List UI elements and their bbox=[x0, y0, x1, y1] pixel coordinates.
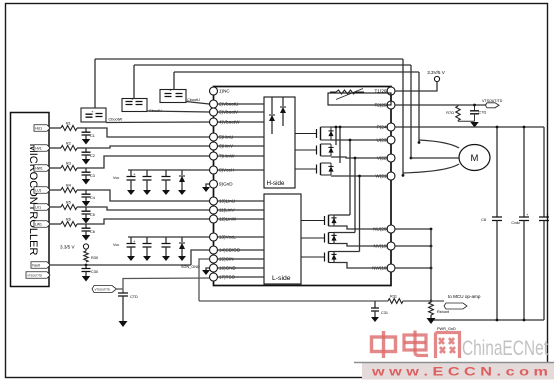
wire pin stub to H-side bbox=[218, 121, 264, 123]
ground SGN_GND bbox=[181, 265, 210, 275]
wire pin stub to L-side bbox=[218, 236, 264, 238]
capacitor C3 bbox=[82, 168, 95, 179]
wire R4 to junction bbox=[77, 190, 209, 201]
wire pin stub to H-side bbox=[218, 155, 264, 157]
wire Q5 source to NV bbox=[334, 244, 387, 247]
MCU pin flag HV1 bbox=[34, 145, 50, 152]
resistor R6 bbox=[61, 218, 77, 227]
wire Q6 source to NW bbox=[334, 263, 387, 269]
ground C8+ bbox=[127, 190, 135, 195]
wire P feed to Q2 drain bbox=[335, 126, 338, 145]
svg-text:H-side: H-side bbox=[267, 180, 285, 187]
pin U(23) bbox=[377, 136, 396, 144]
thermistor RT1 bbox=[328, 89, 391, 106]
pin 15 15)CIN bbox=[210, 255, 234, 263]
svg-text:C6: C6 bbox=[90, 230, 95, 234]
svg-text:SGN_GND: SGN_GND bbox=[181, 265, 200, 269]
MCU pin flag HW1 bbox=[34, 165, 50, 172]
resistor Rshunt bbox=[429, 300, 450, 318]
capacitor CTD bbox=[118, 293, 138, 321]
resistor R4 bbox=[61, 184, 77, 193]
wire pin stub to L-side bbox=[218, 276, 264, 278]
pin 2 2)VbootU bbox=[210, 100, 239, 108]
zener D13 (VccL) bbox=[179, 237, 185, 256]
svg-text:MICROCONTROLLER: MICROCONTROLLER bbox=[27, 144, 39, 256]
svg-text:VTSOUT/TD: VTSOUT/TD bbox=[95, 287, 110, 291]
wire CbootW top feed bbox=[94, 59, 96, 108]
wire boot W top rail bbox=[95, 58, 403, 60]
resistor R31 sense bbox=[388, 295, 403, 304]
ground D13 bbox=[178, 256, 186, 261]
wire N bus vertical bbox=[430, 229, 432, 302]
microcontroller U2 bbox=[11, 113, 50, 287]
svg-text:R30: R30 bbox=[91, 256, 98, 260]
H-side block bbox=[264, 97, 295, 188]
wire VccL rail bbox=[113, 237, 209, 247]
wire U return vertical bbox=[418, 72, 421, 144]
resistor R30 bbox=[84, 249, 98, 262]
wire pin stub to L-side bbox=[218, 258, 264, 260]
resistor R7 (T2 filter) bbox=[446, 105, 460, 121]
net flag VTSOUT/TD bottom bbox=[92, 286, 123, 293]
pin 10 10)LinU bbox=[210, 197, 236, 205]
ground C30 bbox=[82, 276, 91, 282]
wire pin stub to L-side bbox=[218, 200, 264, 202]
MCU pin flag HU1 bbox=[34, 125, 50, 132]
capacitor C9 (VccH) bbox=[162, 170, 171, 190]
L-side block bbox=[264, 194, 301, 284]
pin P(24) bbox=[377, 123, 395, 131]
wire R2 to junction bbox=[77, 146, 209, 148]
svg-text:to MCU op-amp: to MCU op-amp bbox=[448, 294, 481, 299]
transistor Q1 U high bbox=[295, 127, 334, 140]
svg-text:LU1: LU1 bbox=[35, 188, 41, 192]
capacitor C6 bbox=[82, 224, 95, 235]
wire R3 to junction bbox=[77, 156, 209, 168]
svg-text:R2: R2 bbox=[66, 142, 71, 146]
capacitor C8+ (VccH) bbox=[127, 170, 137, 190]
wire T2 filter common bbox=[458, 120, 475, 122]
pin NW(18) bbox=[372, 264, 395, 272]
svg-text:9)GnD: 9)GnD bbox=[219, 182, 233, 187]
svg-text:3.3/5 V: 3.3/5 V bbox=[60, 245, 75, 250]
pin 5 5)HinU bbox=[210, 133, 234, 141]
ground CTD bbox=[119, 321, 128, 327]
capacitor C30 bbox=[82, 265, 98, 276]
wire CbootU top feed bbox=[173, 72, 175, 90]
net flag to MCU op-amp bbox=[444, 294, 481, 309]
pin 12 12)LinW bbox=[210, 215, 237, 223]
wire NV(19) bbox=[395, 245, 432, 248]
capacitor CbootV group bbox=[122, 97, 162, 113]
svg-text:CbootW: CbootW bbox=[109, 118, 123, 122]
net flag VTSOUT/TD right bbox=[482, 99, 503, 108]
ground C6 bbox=[82, 235, 91, 241]
svg-text:C8: C8 bbox=[481, 218, 486, 222]
svg-text:1)NC: 1)NC bbox=[219, 89, 230, 94]
wire T2 sense line bbox=[395, 104, 487, 106]
wire NW(18) bbox=[395, 267, 432, 270]
svg-text:L-side: L-side bbox=[272, 275, 291, 282]
watermark logo char wang bbox=[436, 333, 460, 359]
transistor Q6 W low bbox=[301, 252, 337, 263]
svg-text:ChinaECNet: ChinaECNet bbox=[462, 337, 548, 360]
svg-text:HU1: HU1 bbox=[35, 126, 42, 130]
capacitor Cdc right branch bbox=[539, 127, 549, 320]
pin 16 16)GND bbox=[210, 264, 237, 272]
ground CvccH bbox=[143, 190, 151, 195]
transistor Q2 V high bbox=[295, 144, 334, 156]
wire W to Q6 drain bbox=[334, 175, 361, 252]
wire MCU R5 net bbox=[49, 206, 61, 208]
svg-text:R7Ω: R7Ω bbox=[446, 111, 454, 115]
wire P(24) DC+ rail bbox=[395, 126, 544, 128]
capacitor CbootU group bbox=[160, 88, 200, 102]
transistor Q3 W high bbox=[295, 163, 334, 175]
node 3.3/5V supply (T1) bbox=[427, 70, 446, 82]
wire CIN sense line bbox=[199, 300, 388, 302]
wire pin stub to H-side bbox=[218, 169, 264, 171]
wire W line Q3 source to pin W bbox=[331, 175, 387, 177]
wire 3.3/5V to T1 bbox=[395, 82, 437, 91]
wire DC bus bottom rail bbox=[431, 319, 544, 321]
pin 3 3)VbootV bbox=[210, 108, 240, 116]
ground C14 bbox=[162, 256, 170, 261]
svg-text:R6: R6 bbox=[66, 218, 71, 222]
MCU pin flag LU1 bbox=[34, 187, 50, 194]
svg-text:Vcc: Vcc bbox=[113, 243, 119, 247]
wire V return vertical bbox=[410, 65, 413, 159]
pin NV(19) bbox=[373, 242, 395, 250]
MCU pin flag VTSOUT/TD bbox=[26, 272, 50, 279]
wire pin stub to L-side bbox=[218, 209, 264, 211]
wire pin stub to H-side bbox=[218, 136, 264, 138]
pin 8 8)VccH bbox=[210, 166, 235, 174]
wire R6 to junction bbox=[77, 219, 209, 224]
wire U to Q4 drain bbox=[334, 139, 351, 215]
wire V line Q2 source to pin V bbox=[331, 157, 387, 158]
wire motor phase W bbox=[403, 164, 459, 173]
svg-text:VTSOUT/TD: VTSOUT/TD bbox=[27, 273, 42, 277]
MCU pin flag LV1 bbox=[34, 204, 50, 211]
capacitor C13+ (VccL) bbox=[127, 237, 137, 256]
resistor R3 bbox=[61, 162, 77, 171]
svg-text:C5: C5 bbox=[90, 213, 95, 217]
wire MCU R4 net bbox=[49, 189, 61, 191]
svg-text:R5: R5 bbox=[66, 201, 71, 205]
pin 13 13)VccL bbox=[210, 233, 237, 241]
wire pin stub to H-side bbox=[218, 111, 264, 113]
capacitor C2 bbox=[82, 148, 95, 159]
capacitor C7 (T2 filter) bbox=[470, 104, 486, 122]
resistor R2 bbox=[61, 142, 77, 151]
capacitor C8dc branch bbox=[481, 126, 502, 322]
pin 17 17)TSO bbox=[210, 273, 236, 281]
wire R5 to junction bbox=[77, 207, 209, 210]
svg-text:HW1: HW1 bbox=[35, 166, 43, 170]
node 3.3/5V pullup bbox=[60, 244, 89, 250]
svg-text:Rshunt: Rshunt bbox=[437, 310, 450, 314]
svg-text:3.3V/5 V: 3.3V/5 V bbox=[427, 70, 446, 75]
wire Q4 source to NU bbox=[334, 226, 387, 229]
capacitor C14 (VccL) bbox=[162, 237, 171, 256]
resistor R5 bbox=[61, 201, 77, 210]
svg-text:M: M bbox=[471, 153, 479, 164]
wire MCU R2 net bbox=[49, 147, 61, 149]
svg-text:LW1: LW1 bbox=[35, 222, 42, 226]
svg-text:R3: R3 bbox=[66, 162, 71, 166]
ground CvccL bbox=[143, 256, 151, 261]
wire pin stub to H-side bbox=[218, 145, 264, 147]
pin 14 14)SD/OD bbox=[210, 246, 241, 254]
watermark logo char zhong bbox=[372, 331, 396, 358]
MCU pin flag Fault bbox=[31, 262, 50, 269]
pin NU(20) bbox=[373, 225, 395, 233]
MCU pin flag LW1 bbox=[34, 221, 50, 228]
pin V(22) bbox=[377, 154, 395, 162]
wire pin stub to L-side bbox=[218, 218, 264, 220]
wire R1 to junction bbox=[77, 128, 209, 137]
diode D2 bootstrap (H-side) bbox=[280, 97, 286, 126]
svg-text:HV1: HV1 bbox=[35, 146, 42, 150]
zener D8 (VccH) bbox=[179, 170, 185, 190]
ground C13+ bbox=[127, 256, 135, 261]
pin 1 1)NC bbox=[210, 87, 231, 95]
capacitor CvccH (VccH) bbox=[143, 170, 152, 190]
wire MCU R6 net bbox=[49, 223, 61, 225]
transistor Q5 V low bbox=[301, 233, 337, 244]
pin T1(26) bbox=[374, 87, 395, 95]
wire pin9 GnD stub bbox=[206, 184, 209, 187]
ground C5 bbox=[82, 218, 91, 224]
wire P feed to Q3 drain bbox=[339, 126, 342, 163]
wire CbootV to VbootV pin3 bbox=[147, 111, 209, 112]
watermark logo char dian bbox=[404, 331, 428, 356]
capacitor CbootW group bbox=[81, 108, 123, 122]
svg-text:C3: C3 bbox=[90, 174, 95, 178]
wire CbootV top feed bbox=[133, 65, 135, 99]
ground C9 bbox=[162, 190, 170, 195]
svg-text:PWR_GnD: PWR_GnD bbox=[437, 327, 456, 331]
wire boot U top rail bbox=[174, 71, 419, 73]
pin 11 11)LinV bbox=[210, 206, 236, 214]
svg-text:Cvdc: Cvdc bbox=[511, 221, 520, 225]
ground D8 bbox=[178, 190, 186, 195]
svg-text:CTD: CTD bbox=[130, 295, 138, 299]
wire Fault to SD/OD pin14 bbox=[191, 250, 209, 265]
capacitor Cvdc branch bbox=[511, 126, 529, 322]
wire V to Q5 drain bbox=[334, 157, 356, 233]
wire W return vertical bbox=[402, 59, 405, 177]
svg-text:Vcc: Vcc bbox=[113, 176, 119, 180]
capacitor C4 bbox=[82, 190, 95, 201]
ground PWR_GnD bbox=[427, 318, 457, 331]
resistor R1 bbox=[61, 122, 77, 131]
wire pin stub to L-side bbox=[218, 267, 264, 269]
ground C1 bbox=[82, 139, 91, 145]
ground C31 bbox=[371, 317, 379, 322]
wire P rail to Q1 drain bbox=[331, 126, 387, 128]
watermark band bbox=[362, 363, 554, 380]
motor M1 bbox=[459, 145, 490, 171]
wire CbootU to VbootU pin2 bbox=[186, 102, 209, 105]
svg-text:R1: R1 bbox=[66, 122, 71, 126]
wire CIN pin15 to sense line bbox=[199, 259, 209, 301]
pin W(21) bbox=[375, 172, 395, 180]
wire motor phase V bbox=[411, 157, 459, 159]
svg-text:C31: C31 bbox=[381, 311, 388, 315]
pin T2(25) bbox=[374, 101, 395, 109]
wire MCU R3 net bbox=[49, 167, 61, 169]
svg-text:C7Ω: C7Ω bbox=[479, 111, 487, 115]
svg-text:R31: R31 bbox=[390, 295, 397, 299]
capacitor C31 sense filter bbox=[371, 301, 388, 317]
ground C3 bbox=[82, 179, 91, 185]
wire NU(20) bbox=[395, 228, 432, 231]
capacitor C5 bbox=[82, 207, 95, 218]
op-amp U1 driver IC box bbox=[214, 87, 392, 286]
svg-text:C30: C30 bbox=[91, 270, 98, 274]
svg-text:w w w . E C C N . c o m: w w w . E C C N . c o m bbox=[371, 367, 548, 379]
capacitor CvccL (VccL) bbox=[143, 237, 152, 256]
wire Fault line bbox=[49, 264, 191, 267]
transistor Q4 U low bbox=[301, 215, 337, 226]
wire pin stub to H-side bbox=[218, 103, 264, 105]
wire U line Q1 source to pin U bbox=[331, 139, 387, 141]
pin 7 7)HinW bbox=[210, 152, 235, 160]
svg-text:C2: C2 bbox=[90, 154, 95, 158]
svg-text:LV1: LV1 bbox=[35, 205, 41, 209]
wire sense to flag bbox=[403, 300, 444, 302]
wire MCU R1 net bbox=[49, 127, 61, 129]
ground T2 filter bbox=[470, 122, 479, 128]
wire boot V top rail bbox=[134, 64, 411, 66]
svg-text:Fault: Fault bbox=[32, 263, 40, 267]
svg-text:C4: C4 bbox=[90, 196, 95, 200]
capacitor C1 bbox=[82, 128, 95, 139]
ground C4 bbox=[82, 201, 91, 207]
pin 9 9)GnD bbox=[210, 180, 234, 188]
pin 4 4)VbootW bbox=[210, 118, 241, 126]
ground pin9 bbox=[202, 187, 210, 192]
svg-text:C1: C1 bbox=[90, 134, 95, 138]
ground C2 bbox=[82, 159, 91, 165]
pin 6 6)HinV bbox=[210, 142, 234, 150]
wire CbootW to VbootW pin4 bbox=[106, 121, 209, 124]
wire pin stub to L-side bbox=[218, 249, 264, 251]
wire TSO pin17 line bbox=[123, 278, 209, 293]
wire VccH rail bbox=[113, 170, 209, 180]
svg-text:R4: R4 bbox=[66, 184, 71, 188]
wire motor phase U bbox=[419, 140, 459, 148]
diode D1 bootstrap (H-side) bbox=[269, 97, 275, 134]
